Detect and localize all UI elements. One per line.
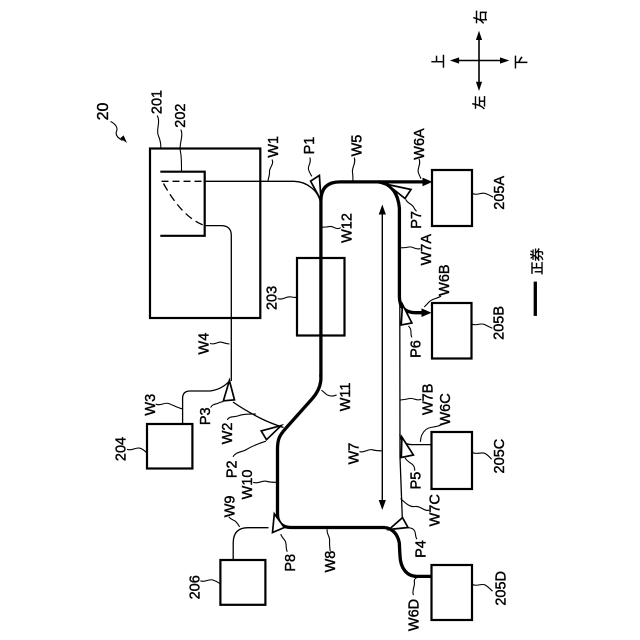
svg-text:202: 202 (173, 103, 189, 127)
svg-text:P5: P5 (408, 472, 424, 490)
svg-text:206: 206 (188, 575, 204, 599)
svg-text:W2: W2 (220, 423, 236, 445)
svg-text:W7C: W7C (428, 494, 444, 526)
svg-text:P3: P3 (198, 407, 214, 425)
svg-text:W6D: W6D (406, 599, 422, 631)
svg-text:P8: P8 (283, 554, 299, 572)
svg-text:P4: P4 (413, 540, 429, 558)
svg-text:正券: 正券 (530, 247, 545, 274)
svg-text:右: 右 (473, 10, 489, 24)
svg-text:W3: W3 (143, 394, 159, 416)
svg-text:W4: W4 (197, 333, 213, 355)
svg-text:W8: W8 (323, 551, 339, 573)
svg-text:左: 左 (471, 96, 487, 110)
svg-text:下: 下 (513, 55, 529, 69)
svg-text:205D: 205D (494, 571, 510, 606)
svg-text:P6: P6 (409, 340, 425, 358)
svg-text:205C: 205C (492, 439, 508, 474)
svg-text:204: 204 (113, 437, 129, 461)
svg-text:205A: 205A (492, 176, 508, 210)
svg-text:P1: P1 (302, 137, 318, 155)
svg-text:201: 201 (150, 90, 166, 114)
svg-text:W5: W5 (350, 135, 366, 157)
svg-text:W11: W11 (338, 383, 354, 412)
svg-text:W9: W9 (222, 496, 238, 518)
svg-text:P7: P7 (409, 211, 425, 229)
svg-text:上: 上 (431, 54, 447, 68)
svg-text:W6A: W6A (412, 128, 428, 160)
svg-text:20: 20 (95, 103, 112, 121)
svg-text:W7A: W7A (419, 234, 435, 266)
svg-text:W7: W7 (347, 443, 363, 465)
svg-text:205B: 205B (491, 306, 507, 340)
svg-text:W12: W12 (339, 213, 355, 243)
svg-text:W6B: W6B (437, 264, 453, 295)
svg-text:W6C: W6C (438, 393, 454, 425)
svg-text:203: 203 (264, 286, 280, 310)
svg-text:W1: W1 (266, 136, 282, 158)
svg-text:P2: P2 (225, 460, 241, 478)
svg-text:W7B: W7B (420, 384, 436, 415)
svg-text:W10: W10 (240, 469, 256, 499)
